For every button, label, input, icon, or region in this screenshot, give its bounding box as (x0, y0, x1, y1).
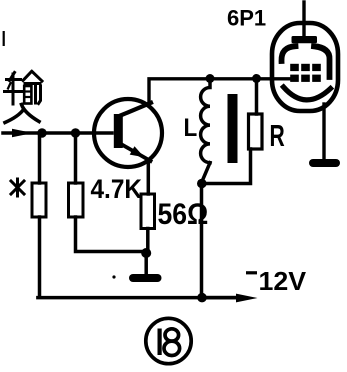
svg-text:6P1: 6P1 (227, 6, 266, 31)
svg-text:L: L (184, 114, 198, 142)
svg-text:4.7K: 4.7K (91, 175, 143, 204)
svg-text:R: R (270, 118, 285, 153)
svg-text:56Ω: 56Ω (158, 198, 209, 231)
svg-text:12V: 12V (259, 267, 307, 296)
